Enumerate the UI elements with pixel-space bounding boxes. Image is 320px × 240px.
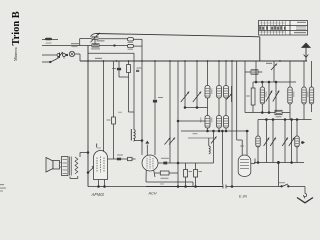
pot arrow low 291 (289, 120, 295, 163)
label WK (71, 43, 79, 47)
wire H112 (245, 112, 275, 114)
tube V3 AZ (238, 155, 255, 177)
capacitor 4n (112, 61, 121, 77)
terminal circles (57, 54, 68, 59)
coil L1 (45, 38, 52, 44)
wire tube3 top leads (237, 61, 248, 155)
coil right 290 (288, 61, 292, 120)
lamp LP1 (69, 51, 80, 56)
wire circle row (42, 54, 57, 56)
tube V1 AFW3 (94, 144, 108, 187)
resistor Rv1 (184, 163, 192, 187)
wire antenna row (42, 39, 58, 41)
wire V142 upper (141, 39, 143, 61)
wire H162 (254, 161, 304, 163)
label 1m (95, 58, 102, 59)
coil low 297 (295, 120, 299, 163)
resistor R w (107, 61, 116, 159)
ground symbol (289, 187, 313, 203)
IF coil T1b (205, 116, 210, 132)
switch S1 (42, 59, 58, 63)
wire bus H2 stub (80, 39, 128, 46)
node plus low (302, 142, 306, 144)
wire tube2 right (158, 158, 214, 165)
wire lamp drop (79, 54, 81, 61)
svg-text:ACH: ACH (148, 192, 157, 196)
pot arrow 276 (273, 82, 279, 113)
trimmer right top (271, 61, 277, 82)
resistor Rv2 (194, 163, 202, 187)
coil right 262 (260, 82, 264, 113)
pot arrow low 285 (282, 120, 288, 163)
trimmer VC3 (193, 61, 201, 108)
label AFW3 (91, 192, 105, 197)
resistor R7k (246, 82, 255, 113)
cathode node tube1 (87, 166, 94, 173)
wire H119 (258, 119, 312, 121)
resistor R tube1 right (128, 157, 136, 160)
svg-text:Trion B: Trion B (11, 11, 22, 45)
label ACH1 (148, 192, 157, 196)
wire V178 (177, 61, 179, 187)
label plus (266, 63, 272, 64)
wire V245 top (245, 61, 251, 113)
coil low 258 (256, 120, 260, 163)
wire bottom 186 (146, 186, 223, 188)
wire V256 (255, 61, 257, 83)
capacitor C4F (153, 61, 163, 155)
trimmer IF right (227, 86, 233, 102)
choke mid (131, 129, 142, 141)
capacitor C right top (251, 70, 262, 74)
svg-text:AFW3: AFW3 (91, 192, 105, 197)
transformer output (62, 157, 78, 179)
connector break (223, 185, 278, 189)
wire transformer top (80, 152, 89, 157)
title Minerva Trion B (11, 11, 22, 61)
wire 138 (188, 137, 213, 139)
capacitor C1 (128, 38, 143, 43)
svg-text:Minerva: Minerva (13, 47, 18, 61)
coil right 311 (309, 61, 313, 112)
IF coil T2b (217, 116, 222, 132)
grid arrows tube2 (165, 138, 176, 145)
wire main bus H5 (80, 60, 307, 62)
wire node 77 (119, 77, 134, 112)
wire node 121 (178, 120, 205, 122)
IF coil T3b (224, 116, 229, 132)
wire V232 (231, 61, 233, 187)
wire node 107 (185, 107, 208, 109)
resistor R2M (127, 61, 131, 77)
pot arrow low 273 (270, 120, 276, 163)
wire V88 left border (87, 46, 89, 187)
label C ant (91, 48, 100, 49)
trimmer mid (211, 131, 217, 163)
antenna symbol (302, 43, 310, 61)
label E JN (239, 195, 247, 199)
coil right 304 (302, 61, 306, 120)
resistor R500 (155, 171, 178, 179)
pot arrow 269 (266, 82, 272, 113)
wire H4 (88, 53, 134, 129)
capacitor C2 (128, 44, 143, 49)
wire V278 low (277, 163, 279, 187)
table tube data (259, 21, 308, 36)
wire bus H1 (96, 34, 260, 62)
capacitor C ant (92, 44, 99, 47)
tube V2 ACH1 (142, 141, 193, 186)
trimmer CT1 (57, 52, 63, 59)
wire tube1 bottom (88, 186, 146, 188)
squiggle 209 (209, 138, 210, 154)
wire V170 (169, 61, 171, 163)
wire V142 lower (141, 61, 143, 155)
IF coil T2a (217, 61, 222, 116)
IF coil T1a (205, 61, 210, 116)
variable capacitor TRC (90, 33, 99, 46)
speaker (46, 158, 61, 173)
pot arrow low 266 (264, 120, 270, 163)
wire AVC (181, 130, 249, 132)
wire V103 (103, 61, 105, 151)
misc tiny labels (97, 89, 308, 185)
trimmer VC2 (181, 61, 189, 108)
wire V222 (222, 130, 224, 184)
svg-text:E JN: E JN (239, 195, 247, 199)
page mark bottom left (0, 184, 6, 192)
switch mains (278, 184, 289, 187)
wire H81 (253, 81, 296, 83)
rectifier Gl (275, 110, 290, 117)
junction dots bus (87, 60, 281, 62)
wire bus H3 (42, 45, 128, 47)
label TRC (97, 40, 105, 41)
IF coil T3a (224, 61, 229, 116)
wire tube1 right (108, 155, 128, 161)
label 01 (136, 68, 142, 73)
